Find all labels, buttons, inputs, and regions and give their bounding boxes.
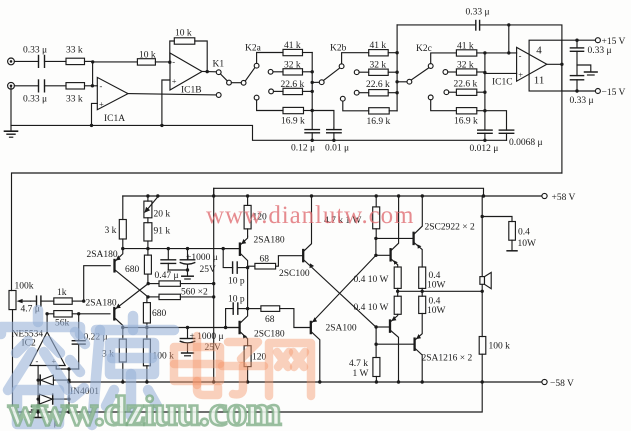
wire to bus B <box>388 71 397 73</box>
K2a 22.6k row contact <box>269 89 274 94</box>
svg-text:4: 4 <box>536 45 542 57</box>
long vertical bus x=213.7 <box>213 188 215 382</box>
op-amp IC1B <box>170 53 202 90</box>
node bus A pivot tap <box>311 81 314 84</box>
node IC1C- feedback tap <box>507 51 510 54</box>
output line to speaker <box>398 290 483 292</box>
node output left <box>396 290 399 293</box>
resistor 120 lower <box>244 346 251 382</box>
capacitor 10p lower <box>226 303 248 328</box>
wire 32k row to IC1C+ <box>477 71 485 73</box>
wire 16.9k row to 0.0068u <box>485 111 507 130</box>
wire feedback down to IC1C- <box>508 25 510 53</box>
wire caps common bottom <box>168 269 187 271</box>
node rail 20k <box>146 194 149 197</box>
svg-text:+58 V: +58 V <box>552 193 576 203</box>
node lower base bus mid <box>374 343 377 346</box>
svg-text:−58 V: −58 V <box>550 379 574 389</box>
capacitor 0.47u <box>161 249 176 270</box>
wire K2c upper to 41k row <box>431 53 457 64</box>
svg-text:0.4 10 W: 0.4 10 W <box>354 303 389 313</box>
diode D2 IN4001 <box>40 394 70 404</box>
resistor 0.4 10W lower-right <box>419 296 426 313</box>
wire Q3 collector down <box>247 268 249 309</box>
node 0.47u top on bias <box>167 247 170 250</box>
svg-text:-: - <box>36 356 39 366</box>
node 0.01u on rail <box>332 139 335 142</box>
wire 16.9k to bus A <box>304 110 313 112</box>
svg-text:0.012 μ: 0.012 μ <box>470 144 499 154</box>
resistor 16.9k (bank C) <box>456 108 476 114</box>
capacitor C2 0.33u <box>39 80 45 92</box>
transistor Tc 2SA1216 <box>376 314 398 382</box>
node bus A 16.9k <box>311 109 314 112</box>
svg-text:2SC2922 × 2: 2SC2922 × 2 <box>425 222 475 232</box>
node right rail on -58V rail <box>67 380 70 383</box>
wire R3 to IC1B- node <box>155 61 170 63</box>
node 2SA100 collector rail <box>318 380 321 383</box>
resistor 16.9k (bank A) <box>283 107 304 113</box>
wire K2a 22.6k contact to 22.6k <box>274 90 284 92</box>
svg-text:33 k: 33 k <box>66 95 83 105</box>
svg-text:10 k: 10 k <box>139 51 156 61</box>
svg-text:0.33 μ: 0.33 μ <box>23 95 47 105</box>
watermark orange glyph wang <box>269 343 311 396</box>
svg-text:0.4: 0.4 <box>429 296 441 306</box>
wire to output node <box>421 288 423 296</box>
svg-text:0.01 μ: 0.01 μ <box>325 144 349 154</box>
switch K2c arm <box>411 68 429 80</box>
svg-text:22.6 k: 22.6 k <box>454 80 478 90</box>
svg-text:16.9 k: 16.9 k <box>454 117 478 127</box>
node 680-2 top <box>146 295 149 298</box>
node 100k-3 on rail <box>481 380 484 383</box>
resistor 3k upper <box>119 220 126 240</box>
svg-text:1k: 1k <box>57 288 67 298</box>
node IC1B- <box>168 61 171 64</box>
svg-text:680: 680 <box>152 309 167 319</box>
node D1 left <box>37 379 40 382</box>
wire K2a 32k contact to 32k <box>273 71 283 73</box>
wire R2 to node <box>85 85 98 87</box>
transistor Ta 2SC2922 <box>391 196 399 267</box>
node 1u on bottom line <box>36 410 39 413</box>
op-amp IC1C triangle <box>517 47 547 81</box>
svg-text:-: - <box>100 81 103 91</box>
svg-text:68: 68 <box>260 255 270 265</box>
ground rail top section <box>11 86 507 141</box>
watermark orange glyph zi <box>222 342 264 394</box>
svg-text:0.33 μ: 0.33 μ <box>466 8 490 18</box>
node 1000u-2 top on bias2 <box>186 326 189 329</box>
resistor 0.4 10W upper-left <box>394 267 401 288</box>
bus C vertical <box>484 53 486 130</box>
resistor 22.6k (bank C) <box>456 89 476 95</box>
svg-text:22.6 k: 22.6 k <box>366 80 390 90</box>
node Q3 collector 68 tap <box>246 266 249 269</box>
node 3k lower on rail <box>121 380 124 383</box>
wire row2 from J2 to C2 <box>14 85 38 87</box>
wire K2c 22.6k contact to 22.6k <box>449 91 457 93</box>
svg-text:4.7 k: 4.7 k <box>349 359 368 369</box>
capacitor 10p upper <box>223 249 247 274</box>
text labels bottom mid-left <box>86 210 357 363</box>
node caps bottom <box>186 268 189 271</box>
node bias2 left <box>121 326 124 329</box>
node bus B 32k <box>395 71 398 74</box>
transistor Tb 2SC2922 <box>414 196 423 267</box>
wire +58 rail corner to 3k upper <box>122 196 124 220</box>
svg-text:32 k: 32 k <box>284 60 301 70</box>
node row1 <box>91 60 94 63</box>
capacitor 0.01u <box>327 128 341 140</box>
node lower base bus top <box>374 325 377 328</box>
svg-text:−15 V: −15 V <box>602 88 626 98</box>
resistor 1k <box>54 298 72 304</box>
svg-text:1 W: 1 W <box>353 369 369 379</box>
node 4.7k on rail <box>375 194 378 197</box>
wire to bus C <box>477 91 485 93</box>
resistor 0.4 10W upper-right <box>419 267 426 288</box>
resistor R1 33k <box>66 58 85 64</box>
wire 56k to Q2 base <box>72 313 110 315</box>
svg-text:10W: 10W <box>427 280 446 290</box>
resistor 680 first <box>144 249 151 284</box>
node bus on +58 rail <box>212 194 215 197</box>
node D2 left <box>37 398 40 401</box>
node output at speaker <box>481 290 484 293</box>
svg-text:K2c: K2c <box>416 44 432 54</box>
svg-text:www.dziuu.com: www.dziuu.com <box>8 388 281 431</box>
capacitor 0.22u <box>72 314 85 369</box>
wire K2a upper contact to 41k row <box>257 53 283 64</box>
wire upper base bus <box>375 238 377 255</box>
node bus C 32k / IC1C+ <box>483 71 486 74</box>
node Tc collector rail <box>397 380 400 383</box>
ground symbol top-left <box>5 125 18 137</box>
node 560-2 on bus <box>212 295 215 298</box>
resistor 22.6k (bank B) <box>369 90 389 96</box>
K2b 32k contact <box>354 70 359 75</box>
K2a 32k row contact <box>268 69 273 74</box>
node 0.12u on rail <box>311 139 314 142</box>
svg-text:2SA180: 2SA180 <box>254 235 285 245</box>
resistor 32k (bank C) <box>456 69 476 75</box>
resistor R4 10k feedback <box>174 38 195 44</box>
svg-text:+: + <box>518 70 523 80</box>
resistor 22.6k (bank A) <box>283 88 303 94</box>
wire IC1C+ row <box>485 72 517 75</box>
svg-text:10W: 10W <box>427 306 446 316</box>
wire IC1B output <box>202 71 216 73</box>
svg-text:2SC100: 2SC100 <box>279 269 310 279</box>
wire base to Td <box>376 343 415 345</box>
svg-text:+: + <box>172 76 177 86</box>
switch K2b pivot <box>319 80 324 85</box>
svg-text:100 k: 100 k <box>489 342 511 352</box>
wire K2b 32k contact to 32k <box>359 71 369 73</box>
wire NE5534 output to 56k node <box>46 314 48 332</box>
svg-text:0.33 μ: 0.33 μ <box>570 96 594 106</box>
svg-text:100k: 100k <box>15 282 34 292</box>
capacitor 0.0068u <box>499 130 513 140</box>
node +15V cap tap <box>575 39 578 42</box>
IC1C package box pins 4 and 11 <box>529 40 562 91</box>
svg-text:K2a: K2a <box>245 44 262 54</box>
node IC1C output <box>560 63 563 66</box>
node bus A 22.6k <box>311 90 314 93</box>
node Ta collector rail <box>397 194 400 197</box>
node feedback top <box>507 23 510 26</box>
wire +15V pin4 <box>562 39 596 41</box>
svg-text:33 k: 33 k <box>66 46 83 56</box>
wire 22.6k to bus A <box>303 90 313 92</box>
svg-text:16.9 k: 16.9 k <box>281 117 305 127</box>
svg-text:+1000 μ: +1000 μ <box>186 253 218 263</box>
node 0.4 10W zobel tap <box>481 215 484 218</box>
wire 32k to bus A <box>303 71 313 73</box>
svg-text:32 k: 32 k <box>370 61 387 71</box>
wire IC1B+ to rail <box>162 80 170 125</box>
wire R1 to node <box>85 60 93 62</box>
wire to bus B <box>389 110 397 112</box>
wire feedback cap right to output vertical <box>480 25 562 173</box>
resistor 4.7k 1W upper <box>373 196 380 238</box>
wire node to R3 10k <box>93 61 138 63</box>
wire 41k row to IC1C- <box>477 52 517 54</box>
wire to bus B <box>388 52 397 54</box>
wire 1k to node <box>72 300 84 302</box>
svg-text:20 k: 20 k <box>154 210 171 220</box>
node bus C 41k <box>483 51 486 54</box>
resistor 41k (bank A) <box>283 49 303 55</box>
speaker <box>480 272 491 288</box>
resistor 0.4 10W zobel <box>482 217 517 251</box>
K2c 22.6k contact <box>444 90 449 95</box>
terminal -58V <box>542 379 547 384</box>
resistor 560 first <box>148 281 214 286</box>
resistor 32k (bank B) <box>369 69 389 75</box>
node IC1A+ on rail <box>90 124 93 127</box>
resistor 68 first <box>248 256 304 269</box>
svg-text:120: 120 <box>252 353 267 363</box>
wire base to Tb <box>376 237 414 239</box>
node 560-1 on bus <box>212 282 215 285</box>
transistor Q5 2SC100 <box>303 196 376 327</box>
K2a upper throw contact <box>254 63 259 68</box>
node bus B 41k <box>395 51 398 54</box>
wire bus A 16.9k row to 0.01u <box>312 111 334 129</box>
wire to bus B <box>388 92 397 94</box>
K2b lower throw contact <box>340 96 345 101</box>
input terminal J1 <box>8 58 15 65</box>
node upper base bus bottom <box>374 254 377 257</box>
switch K2b arm <box>324 68 341 81</box>
capacitor 0.12u <box>305 130 319 141</box>
wire bus A to K2b pivot <box>312 81 319 83</box>
resistor 3k lower <box>119 328 126 383</box>
wire C2 to R2 <box>45 85 67 87</box>
resistor 91k <box>144 218 152 249</box>
feedback loop IC1B 10k <box>170 41 175 62</box>
svg-text:10 p: 10 p <box>228 295 245 305</box>
capacitor 0.012u <box>478 130 492 140</box>
diode D1 IN4001 <box>40 375 69 385</box>
svg-text:10 k: 10 k <box>175 29 192 39</box>
resistor 4.7k 1W lower <box>373 358 380 383</box>
svg-text:25V: 25V <box>200 265 217 275</box>
wire to output node <box>397 288 399 296</box>
node Tb collector rail <box>421 194 424 197</box>
svg-text:K1: K1 <box>213 60 225 70</box>
transistor Q2 2SA180 lower-left <box>114 284 148 328</box>
wire base to Ta <box>376 254 391 256</box>
node 0.22u tap <box>77 312 80 315</box>
node bias 91k <box>146 247 149 250</box>
node upper base bus top <box>374 237 377 240</box>
node 0.012u on rail <box>483 139 486 142</box>
wire bus B to K2c pivot <box>397 81 407 83</box>
svg-text:0.4: 0.4 <box>518 227 530 237</box>
svg-text:www.dianlutw.com: www.dianlutw.com <box>206 202 414 229</box>
resistor 32k (bank A) <box>283 69 303 75</box>
transistor Q6 2SA100 <box>311 255 376 382</box>
capacitor C1 0.33u <box>39 56 45 68</box>
node 120 on rail <box>246 194 249 197</box>
node 120-2 on rail <box>246 380 249 383</box>
node bus C 22.6k <box>483 91 486 94</box>
resistor 560 second <box>148 294 214 299</box>
svg-text:IC1A: IC1A <box>104 114 125 124</box>
bottom boundary line <box>13 382 483 412</box>
resistor R3 10k <box>137 59 155 65</box>
wire K2b upper to 41k row <box>342 53 369 64</box>
K2b upper throw contact <box>339 64 344 69</box>
capacitor 4.7u <box>31 296 54 306</box>
resistor 68 second <box>248 306 311 328</box>
node 1000u top on bias <box>186 247 189 250</box>
wire 41k to bus A <box>303 52 313 54</box>
svg-text:-: - <box>519 51 522 61</box>
wire feedback cap left to bus B <box>397 24 476 26</box>
ground bar below 1000u <box>182 270 193 279</box>
svg-text:91 k: 91 k <box>154 227 171 237</box>
terminal +58V <box>542 193 547 198</box>
resistor 41k (bank B) <box>369 50 389 56</box>
node NE5534 output <box>45 312 48 315</box>
potentiometer 100k input <box>9 291 31 310</box>
switch K2c pivot <box>407 79 412 84</box>
resistor 0.4 10W lower-left <box>394 296 401 314</box>
svg-text:3 k: 3 k <box>105 226 117 236</box>
wire pot bottom to bottom line <box>12 310 14 412</box>
node rail wiper <box>156 194 159 197</box>
wire row1 from J1 to C1 <box>14 60 38 62</box>
text labels bottom left <box>12 282 108 429</box>
svg-text:0.33 μ: 0.33 μ <box>23 46 47 56</box>
K2c upper throw contact <box>428 64 433 69</box>
svg-text:K2b: K2b <box>330 44 347 54</box>
node bus B pivot tap <box>395 80 398 83</box>
wire NE5534 - input stub <box>37 366 39 406</box>
svg-text:41 k: 41 k <box>284 41 301 51</box>
svg-text:+: + <box>99 99 104 109</box>
capacitor 0.33u -15V decoupling <box>570 76 583 91</box>
svg-text:0.33 μ: 0.33 μ <box>588 46 612 56</box>
svg-text:11: 11 <box>534 74 545 86</box>
vertical line +58 feed to speaker and 100k <box>481 196 483 337</box>
node 2SC100 collector rail <box>310 194 313 197</box>
resistor 680 second <box>143 297 150 328</box>
wire K2b 22.6k contact to 22.6k <box>359 92 369 94</box>
svg-text:2SA180: 2SA180 <box>87 250 118 260</box>
svg-text:22.6 k: 22.6 k <box>281 80 305 90</box>
node bus on -58 rail <box>212 380 215 383</box>
-58V rail <box>69 381 542 383</box>
text labels top section <box>23 8 626 154</box>
node right rail on bottom line <box>67 410 70 413</box>
node bias1 10p tap <box>222 247 225 250</box>
transistor Q3 2SA180 mid <box>223 236 247 267</box>
capacitor 1000u lower <box>180 328 194 356</box>
wire IC1A + input to ground rail <box>92 103 98 125</box>
node bus C 16.9k <box>483 109 486 112</box>
resistor 41k (bank C) <box>456 50 476 56</box>
transistor Q4 2SC180 <box>226 309 248 346</box>
watermark orange glyph dian <box>174 336 220 395</box>
capacitor 1000u upper <box>180 249 194 270</box>
svg-text:680: 680 <box>125 265 140 275</box>
wire K2b lower to 16.9k row <box>343 101 369 111</box>
op-amp IC1A <box>97 77 128 109</box>
transistor Q1 2SA180 upper-left <box>115 249 149 297</box>
wire 3k to bias node <box>122 239 124 249</box>
K2a lower throw contact <box>254 95 259 100</box>
capacitor 1u at bottom <box>32 406 46 417</box>
switch K1 <box>216 70 246 98</box>
wire NE5534 + input row <box>56 366 78 370</box>
node IC1B output <box>206 70 209 73</box>
text labels output stage <box>324 193 576 389</box>
K2b 22.6k contact <box>354 90 359 95</box>
wire IC1C output <box>547 63 562 65</box>
K2c 32k contact <box>443 70 448 75</box>
K2c lower throw contact <box>428 95 433 100</box>
capacitor 0.33u +15V decoupling <box>570 40 583 75</box>
node 68-2 tap <box>246 307 249 310</box>
svg-text:41 k: 41 k <box>370 41 387 51</box>
svg-text:2SA100: 2SA100 <box>326 324 357 334</box>
terminal +15V <box>595 38 600 43</box>
node 1k output <box>82 299 85 302</box>
svg-text:32 k: 32 k <box>457 61 474 71</box>
resistor R2 33k <box>66 83 85 89</box>
node IC1B+ rail <box>160 124 163 127</box>
node feed right on rail <box>482 194 485 197</box>
wire C1 to R1 <box>45 60 67 62</box>
node bus A 32k <box>311 70 314 73</box>
bias line 2 <box>123 327 240 329</box>
watermark blue glyph yuan <box>70 316 174 425</box>
svg-text:2SA1216 × 2: 2SA1216 × 2 <box>422 353 473 363</box>
wire K2a lower contact to 16.9k row <box>257 100 283 111</box>
bias line 1 <box>123 248 240 250</box>
node bias2 680 <box>145 326 148 329</box>
terminal -15V <box>595 89 600 94</box>
svg-text:41 k: 41 k <box>457 41 474 51</box>
svg-text:10W: 10W <box>518 239 537 249</box>
wire to bus C <box>477 110 485 112</box>
